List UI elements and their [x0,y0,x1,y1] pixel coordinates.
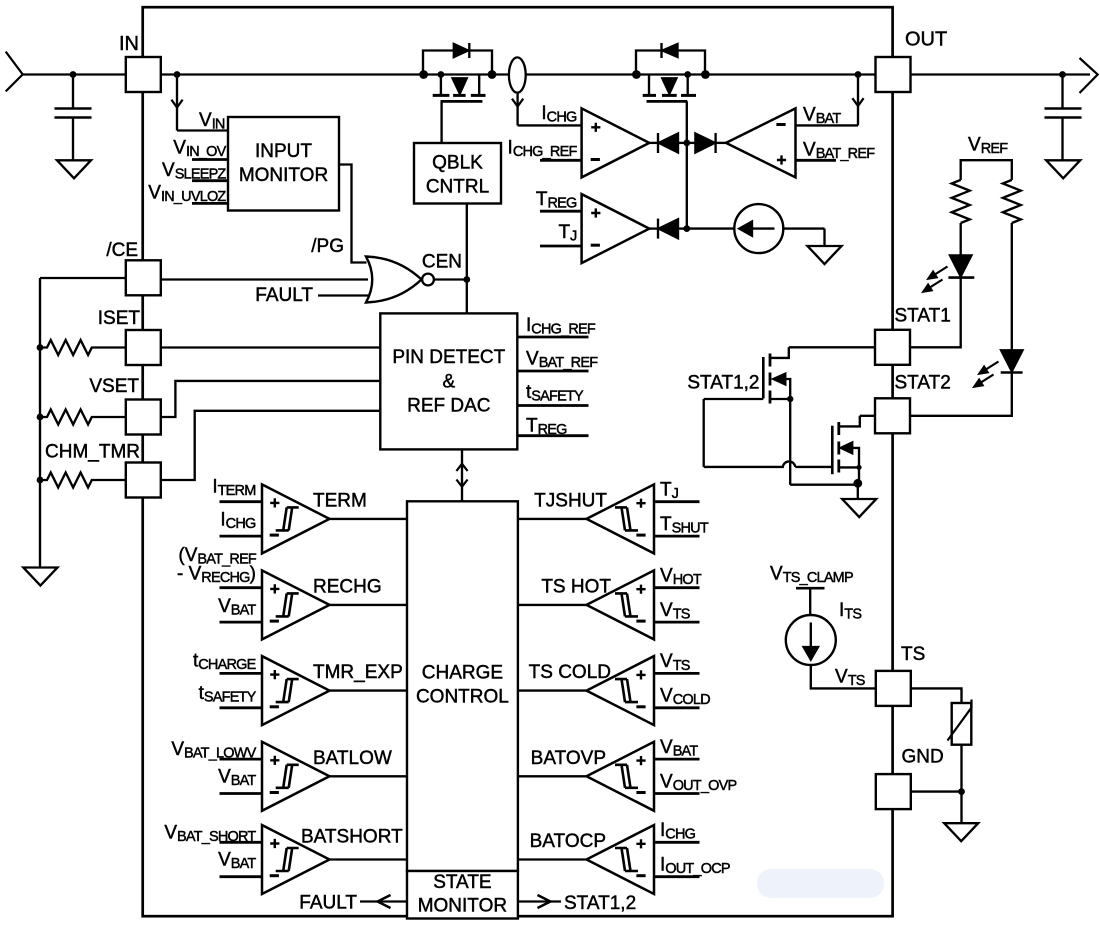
block INPUT MONITOR [228,117,339,211]
svg-text:BATOCP: BATOCP [530,831,606,852]
wire TS COLD minus input [654,706,700,709]
op-amp TS HOT comparator [587,570,655,639]
node Q1 drain [438,71,445,78]
op-amp TMR_EXP comparator [262,656,330,725]
node Q2 diode left [632,70,641,79]
svg-text:TJ: TJ [558,222,577,245]
op-amp BATLOW comparator [262,742,330,811]
svg-text:ITERM: ITERM [212,477,255,500]
wire BATOCP plus input [654,841,700,844]
svg-text:VBAT_SHORT: VBAT_SHORT [164,823,256,846]
wire RECHG minus input [220,621,263,624]
svg-text:VOUT_OVP: VOUT_OVP [660,771,737,794]
pin CHM_TMR [126,463,161,498]
wire probe to ICHG comparator [516,93,518,126]
wire CHM_TMR to PIN DETECT [161,411,380,480]
svg-text:STAT1,2: STAT1,2 [687,373,759,394]
svg-text:tSAFETY: tSAFETY [199,683,257,706]
wire R_STAT1 to LED1 [960,223,962,255]
node rail ISET [37,344,44,351]
wire TERM output [330,518,408,520]
node TREG diode junction [683,225,690,232]
svg-text:GND: GND [902,747,944,768]
thermistor RT [952,703,972,745]
wire BATOVP output [518,775,587,777]
current probe [509,57,526,92]
block QBLK CNTRL [414,143,501,204]
svg-text:STAT2: STAT2 [895,373,951,394]
wire TMR_EXP minus input [220,706,263,709]
wire STAT12 gate routing [704,399,833,467]
wire /CE to NOR [161,278,368,280]
svg-text:REF DAC: REF DAC [407,396,490,417]
node rail VSET [37,414,44,421]
wire BATOCP output [518,858,587,860]
FAULT output arrow [360,900,407,902]
diode D3 [657,219,659,239]
svg-text:/PG: /PG [311,236,344,257]
svg-text:TS COLD: TS COLD [529,662,611,683]
svg-text:TJSHUT: TJSHUT [534,490,607,511]
svg-text:PIN DETECT: PIN DETECT [392,347,505,368]
op-amp BATOCP comparator [587,825,655,894]
svg-text:ICHG_REF: ICHG_REF [508,138,578,161]
node diode junction [683,140,690,147]
NOR gate U1 [366,257,422,303]
block PIN DETECT REF DAC [380,313,517,449]
svg-text:TREG: TREG [536,189,577,212]
svg-text:VBAT_LOWV: VBAT_LOWV [171,739,256,762]
wire TERM minus input [220,535,263,538]
op-amp BATOVP comparator [587,742,655,811]
resistor R_ISET [40,340,126,355]
wire TERM plus input [220,500,263,503]
wire TS HOT output [518,604,587,606]
wire to current source [687,227,735,229]
wire Q1 gate lead [440,101,442,143]
resistor R_CHM [40,473,126,488]
node GND thermistor [958,788,965,795]
transistor Q2 blocking FET [648,75,650,95]
svg-text:VBAT_REF: VBAT_REF [526,349,598,372]
svg-text:MONITOR: MONITOR [418,896,507,917]
node STAT FET sources [853,479,862,488]
wire /CE to left rail [40,277,126,279]
svg-text:TMR_EXP: TMR_EXP [313,662,403,683]
svg-text:VBAT: VBAT [218,767,256,790]
svg-text:VBAT: VBAT [218,850,256,873]
svg-text:BATLOW: BATLOW [313,748,392,769]
node CEN [463,276,470,283]
wire TJSHUT output [518,518,587,520]
node Q1 diode right [488,70,497,79]
ground current source [808,246,842,264]
svg-text:TERM: TERM [313,490,367,511]
wire BATOCP minus input [654,875,700,878]
wire BATSHORT plus input [220,841,263,844]
wire VREF bracket [961,160,1012,180]
svg-text:VBAT: VBAT [660,737,698,760]
svg-text:VIN: VIN [199,110,225,133]
wire ICHG comp to D1 [649,142,658,144]
svg-text:BATSHORT: BATSHORT [301,827,403,848]
svg-text:/CE: /CE [106,240,138,261]
node Q2 diode right [701,70,710,79]
wire TMR_EXP output [330,689,408,691]
VTS clamp supply bar [796,587,825,590]
wire ITS to TS pin [811,665,876,688]
pin STAT1 [875,330,910,365]
wire TJSHUT plus input [654,500,700,503]
block CHARGE CONTROL [407,501,518,871]
wire TJSHUT minus input [654,535,700,538]
wire /PG from input monitor to NOR [339,165,367,263]
ground under COUT [1046,160,1080,178]
wire Q4 drain to STAT2 [860,415,875,417]
svg-text:OUT: OUT [905,29,947,51]
svg-text:VIN_OV: VIN_OV [173,138,226,161]
diode D2 [695,134,714,153]
svg-text:VTS: VTS [660,651,690,674]
svg-text:CONTROL: CONTROL [416,687,509,708]
pin IN [126,57,161,92]
LED D_STAT2 [1001,350,1022,371]
wire LED1 to STAT1 [910,278,961,348]
wire input to IN pin [23,73,125,75]
wire TMR_EXP plus input [220,672,263,675]
wire node to ground [960,792,962,824]
svg-text:TJ: TJ [660,480,679,503]
svg-text:ITS: ITS [839,600,861,623]
svg-text:ISET: ISET [98,308,141,329]
svg-text:VTS_CLAMP: VTS_CLAMP [770,564,853,587]
pin ISET [126,330,161,365]
wire Q3 source down [790,399,858,485]
block STATE MONITOR [407,871,518,919]
wire RECHG plus input [220,586,263,589]
svg-text:TSHUT: TSHUT [660,514,709,537]
pin OUT [876,57,911,92]
svg-text:CHARGE: CHARGE [422,663,503,684]
svg-text:QBLK: QBLK [432,153,483,174]
op-amp ICHG comparator [582,108,650,177]
wire TS COLD output [518,689,587,691]
svg-text:VSET: VSET [89,376,139,397]
svg-text:ICHG: ICHG [220,510,256,533]
current source I1 [734,204,783,253]
svg-text:VBAT: VBAT [218,596,256,619]
wire main rail probe to OUT [526,73,876,75]
svg-text:CEN: CEN [422,252,462,273]
svg-text:VBAT: VBAT [803,105,841,128]
svg-text:CHM_TMR: CHM_TMR [45,442,140,463]
current source ITS [786,615,836,665]
pin /CE [126,260,161,295]
svg-text:FAULT: FAULT [255,285,313,306]
wire BATLOW output [330,775,408,777]
wire RECHG output [330,604,408,606]
node VIN sense tap [174,71,181,78]
pin TS [876,671,911,706]
input terminal arrow [6,52,23,92]
svg-text:IOUT_OCP: IOUT_OCP [660,855,730,878]
svg-text:MONITOR: MONITOR [239,165,328,186]
wire diode node to TREG diode [686,143,688,229]
LED D_STAT1 [950,255,971,276]
transistor Q3 STAT1 FET [762,357,765,399]
node Q3 source [787,396,793,402]
wire NOR output to CEN node [434,278,467,280]
wire VSET to PIN DETECT [161,381,380,417]
wire TS COLD plus input [654,672,700,675]
node rail CHM_TMR [37,477,44,484]
wire TS to thermistor [911,688,962,703]
pin GND [876,774,911,809]
wire VBAT sense [796,124,859,126]
svg-text:VSLEEPZ: VSLEEPZ [162,160,226,183]
svg-text:ICHG_REF: ICHG_REF [526,315,596,338]
node Q2 source [684,71,691,78]
svg-text:STAT1: STAT1 [895,306,951,327]
svg-text:FAULT: FAULT [299,893,357,914]
op-amp BATSHORT comparator [262,825,330,894]
svg-text:RECHG: RECHG [313,576,382,597]
wire OUT to output arrow [910,73,1090,75]
capacitor COUT [1061,75,1063,109]
wire LED2 to STAT2 [910,373,1012,416]
ground left rail [23,568,57,586]
pin VSET [126,400,161,435]
svg-text:VTS: VTS [660,600,690,623]
op-amp TS COLD comparator [587,656,655,725]
wire TS HOT plus input [654,586,700,589]
resistor R_STAT1 [952,180,970,223]
node VBAT tap [855,71,862,78]
node Q4 source [856,465,861,470]
ground GND pin [944,823,978,841]
pin STAT2 [875,398,910,433]
svg-text:CNTRL: CNTRL [426,177,489,198]
diode D1 [657,133,659,153]
svg-text:STAT1,2: STAT1,2 [564,893,636,914]
resistor R_STAT2 [1003,180,1021,223]
watermark [757,869,884,898]
wire BATOVP minus input [654,792,700,795]
wire ISET to PIN DETECT [161,346,380,348]
node Q1 diode left [419,70,428,79]
svg-text:&: & [442,372,455,393]
wire current source to ground [783,227,824,229]
wire thermistor to GND node [960,745,962,792]
node output cap junction [1059,71,1066,78]
svg-text:VIN_UVLOZ: VIN_UVLOZ [148,183,226,206]
wire Q2 gate lead [686,101,688,142]
svg-text:BATOVP: BATOVP [531,748,606,769]
svg-text:IN: IN [119,33,139,55]
svg-text:STATE: STATE [433,872,491,893]
STAT12 output arrow [518,900,561,902]
svg-text:ICHG: ICHG [541,103,577,126]
wire BATLOW minus input [220,792,263,795]
svg-text:TS: TS [901,644,925,665]
body diode D_Q1 [423,51,492,75]
node input cap junction [70,71,77,78]
wire left rail [39,278,41,568]
wire FAULT to NOR [318,294,369,296]
wire GND pin to node [911,790,961,792]
op-amp TJSHUT comparator [587,484,655,553]
op-amp VBAT comparator [726,108,796,177]
op-amp TERM comparator [262,484,330,553]
capacitor CIN [72,75,74,109]
wire QBLK CNTRL to CEN node [466,204,468,314]
wire PIN DETECT to CHARGE CONTROL bidirectional arrow [461,449,463,501]
wire sources to ground [858,467,860,483]
svg-text:tSAFETY: tSAFETY [526,382,584,405]
wire BATOVP plus input [654,758,700,761]
op-amp TREG comparator [582,194,650,263]
svg-text:INPUT: INPUT [255,141,312,162]
svg-text:VBAT_REF: VBAT_REF [803,140,875,163]
wire BATSHORT minus input [220,875,263,878]
op-amp RECHG comparator [262,570,330,639]
svg-text:TS HOT: TS HOT [541,576,611,597]
ground STAT FETs [842,499,876,517]
wire Q3 drain to STAT1 [789,346,875,348]
svg-text:VHOT: VHOT [660,566,702,589]
svg-text:ICHG: ICHG [660,820,696,843]
transistor Q4 STAT2 FET [831,426,834,475]
wire main rail IN to probe [161,73,509,75]
wire BATSHORT output [330,858,408,860]
resistor R_VSET [40,410,126,425]
output terminal arrow [1080,58,1098,93]
wire TS HOT minus input [654,621,700,624]
svg-text:VTS: VTS [835,667,865,690]
wire BATLOW plus input [220,758,263,761]
svg-text:tCHARGE: tCHARGE [193,651,257,674]
ground under CIN [57,160,91,178]
wire VIN sense with arrow [176,75,178,131]
svg-text:VCOLD: VCOLD [660,686,710,709]
body diode D_Q2 [636,51,705,75]
svg-text:VREF: VREF [968,135,1008,158]
IC boundary box [143,7,893,916]
transistor Q1 QBLK FET [440,75,442,95]
wire R_STAT2 to LED2 [1011,223,1013,350]
wire TREG comp to D3 [649,227,658,229]
